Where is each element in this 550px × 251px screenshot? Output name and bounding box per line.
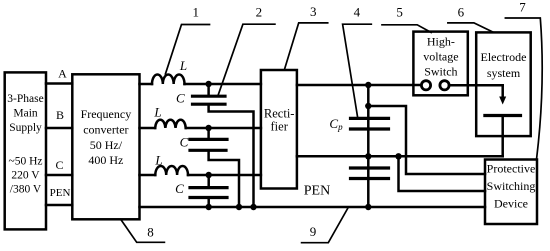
wire electrode down lead bbox=[501, 85, 504, 98]
svg-text:Switch: Switch bbox=[424, 65, 457, 79]
svg-text:1: 1 bbox=[192, 5, 199, 20]
wire Cp branch vertical bbox=[367, 85, 370, 207]
svg-text:Device: Device bbox=[494, 197, 528, 211]
wire phase B converter to inductor bbox=[140, 127, 156, 130]
capacitor C phase A bbox=[193, 96, 226, 104]
label 3-phase supply bbox=[7, 93, 43, 196]
wire phase B supply to converter bbox=[46, 127, 72, 130]
node Cp mid / DC- bbox=[365, 153, 371, 159]
label frequency converter bbox=[81, 107, 132, 167]
svg-text:/380 V: /380 V bbox=[10, 184, 42, 196]
svg-text:3-Phase: 3-Phase bbox=[7, 93, 43, 105]
3-phase supply box bbox=[5, 72, 46, 229]
node phase A / cap A bbox=[205, 81, 211, 87]
wire capacitor B to PEN drop bbox=[209, 150, 239, 207]
wire electrode plate to DC- line bbox=[501, 116, 504, 157]
svg-text:B: B bbox=[56, 108, 64, 122]
svg-text:Frequency: Frequency bbox=[81, 107, 132, 121]
svg-text:3: 3 bbox=[310, 4, 317, 19]
capacitor C phase B bbox=[190, 139, 227, 150]
svg-text:C: C bbox=[180, 135, 189, 150]
label high-voltage switch bbox=[423, 35, 458, 79]
svg-text:voltage: voltage bbox=[423, 50, 458, 64]
wire capacitor C to PEN bbox=[207, 198, 210, 208]
wire capacitor C tap bbox=[207, 175, 210, 187]
label protective switching device bbox=[487, 162, 536, 211]
node Cp top tap bbox=[365, 103, 371, 109]
svg-text:9: 9 bbox=[310, 224, 317, 239]
frequency converter U-FC box bbox=[72, 74, 139, 219]
svg-text:system: system bbox=[487, 66, 521, 80]
switch contact K1 bbox=[421, 81, 430, 90]
inductor L phase C bbox=[155, 166, 188, 175]
svg-text:8: 8 bbox=[147, 224, 154, 239]
callout 7 leader bbox=[505, 18, 542, 160]
wire phase A converter to inductor bbox=[140, 83, 153, 86]
capacitor Cp upper bbox=[351, 118, 389, 129]
node PEN / Cp bbox=[365, 204, 371, 210]
inductor L phase A bbox=[152, 74, 184, 84]
rectifier box bbox=[261, 70, 297, 189]
svg-text:50 Hz/: 50 Hz/ bbox=[90, 138, 123, 152]
protective switching device box bbox=[485, 160, 537, 225]
callout 2 leader bbox=[218, 24, 275, 94]
callout 6 leader bbox=[448, 23, 494, 33]
wire phase C converter to inductor bbox=[140, 174, 156, 177]
wire PEN supply to converter bbox=[46, 204, 72, 207]
svg-text:7: 7 bbox=[519, 0, 526, 15]
callout 9 leader bbox=[302, 208, 349, 243]
svg-text:C: C bbox=[55, 158, 63, 172]
svg-text:C: C bbox=[175, 181, 184, 196]
wire phase C supply to converter bbox=[46, 174, 72, 177]
svg-text:Switching: Switching bbox=[487, 179, 536, 193]
svg-text:4: 4 bbox=[354, 5, 361, 20]
wire DC+ rectifier to switch bbox=[297, 84, 422, 87]
wire Cp top tap to PSD bbox=[368, 106, 485, 174]
svg-text:5: 5 bbox=[396, 5, 403, 20]
switch contact K2 bbox=[440, 81, 449, 90]
svg-text:6: 6 bbox=[458, 5, 465, 20]
node phase C / cap C bbox=[206, 172, 212, 178]
wire capacitor B tap bbox=[207, 128, 210, 139]
node PEN / cap A drop bbox=[250, 204, 256, 210]
capacitor C phase C bbox=[190, 188, 227, 198]
svg-text:converter: converter bbox=[83, 122, 128, 136]
node DC- / PSD drop bbox=[395, 153, 401, 159]
high-voltage switch box bbox=[413, 32, 467, 96]
wire phase A inductor to rectifier bbox=[185, 83, 261, 86]
svg-text:C: C bbox=[176, 90, 185, 105]
label rectifier bbox=[264, 107, 295, 134]
wire DC- line rectifier to electrode return bbox=[297, 155, 503, 158]
callout 4 leader bbox=[343, 24, 372, 116]
svg-text:Main: Main bbox=[13, 108, 38, 120]
electrode system box bbox=[476, 32, 531, 136]
svg-text:~50 Hz: ~50 Hz bbox=[8, 156, 42, 168]
wire capacitor A tap bbox=[207, 84, 210, 96]
wire Cp mid tap to PSD bbox=[399, 156, 486, 191]
node PEN / cap C bbox=[206, 204, 212, 210]
svg-text:PEN: PEN bbox=[304, 184, 330, 199]
svg-text:220 V: 220 V bbox=[11, 170, 40, 182]
electrode plate bbox=[485, 114, 521, 117]
svg-text:A: A bbox=[58, 67, 67, 81]
callout 1 leader bbox=[165, 25, 209, 75]
svg-text:Electrode: Electrode bbox=[481, 50, 527, 64]
electrode arrow bbox=[499, 97, 506, 105]
svg-text:L: L bbox=[179, 58, 187, 73]
inductor L phase B bbox=[155, 120, 186, 128]
svg-text:L: L bbox=[153, 105, 161, 120]
wire phase B inductor to rectifier bbox=[186, 127, 261, 130]
wire PEN rail bbox=[140, 206, 486, 209]
svg-text:Supply: Supply bbox=[9, 122, 42, 134]
label electrode system bbox=[481, 50, 527, 80]
svg-text:2: 2 bbox=[256, 5, 263, 20]
wire phase A supply to converter bbox=[46, 82, 72, 85]
svg-text:PEN: PEN bbox=[50, 187, 71, 199]
wire phase C inductor to rectifier bbox=[188, 174, 261, 177]
node PEN / cap B drop bbox=[236, 204, 242, 210]
callout 5 leader bbox=[382, 25, 431, 33]
svg-text:400 Hz: 400 Hz bbox=[88, 153, 123, 167]
svg-text:Protective: Protective bbox=[487, 162, 536, 176]
wire DC+ switch to electrode bbox=[449, 84, 503, 87]
capacitor Cp lower bbox=[351, 168, 389, 179]
svg-text:fier: fier bbox=[271, 120, 289, 134]
wire capacitor A to PEN drop bbox=[209, 104, 254, 207]
node DC+ / Cp bbox=[365, 82, 371, 88]
node phase B / cap B bbox=[205, 125, 211, 131]
callout 8 leader bbox=[121, 219, 165, 242]
svg-text:High-: High- bbox=[427, 35, 455, 49]
callout 3 leader bbox=[285, 23, 328, 69]
svg-text:L: L bbox=[154, 153, 162, 168]
